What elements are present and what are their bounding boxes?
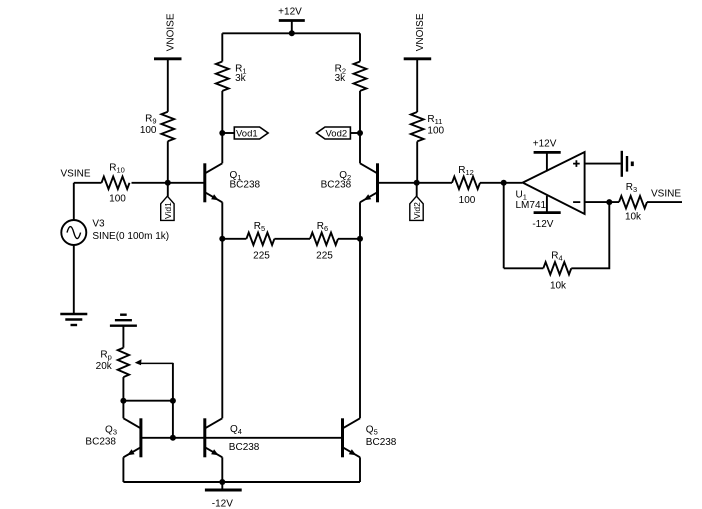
svg-text:R6: R6 [317, 221, 328, 233]
resistor R3 [619, 196, 647, 208]
node Vod2 flag [317, 127, 361, 140]
svg-text:SINE(0 100m 1k): SINE(0 100m 1k) [92, 231, 169, 242]
svg-text:Vod2: Vod2 [326, 129, 348, 140]
resistor R4 [543, 262, 571, 274]
svg-text:100: 100 [459, 195, 476, 206]
wire: V3 to ground [73, 245, 75, 314]
svg-text:VNOISE: VNOISE [165, 13, 176, 51]
wire: feedback down from output [503, 183, 505, 268]
svg-text:10k: 10k [625, 212, 642, 223]
resistor R10 [102, 177, 130, 189]
wire: R9 to Q1 base node [167, 141, 169, 183]
wire: R6 to Q2 emitter [338, 238, 360, 240]
svg-text:R3: R3 [626, 182, 637, 194]
svg-text:20k: 20k [96, 361, 113, 372]
junction wiper / cross wire [170, 398, 176, 404]
junction - input / R4 feedback [606, 199, 612, 205]
wire: rail to R1 [221, 33, 223, 61]
wire: Q4 emitter down [221, 457, 223, 482]
transistor Q4 [205, 418, 223, 457]
junction Q1 emitter / R5 [219, 236, 225, 242]
svg-text:-12V: -12V [532, 219, 553, 230]
junction -12V [219, 479, 225, 485]
svg-text:BC238: BC238 [321, 179, 352, 190]
svg-text:R12: R12 [458, 165, 474, 177]
svg-text:R11: R11 [427, 114, 442, 126]
voltage source VNOISE (left terminal bar) [154, 57, 182, 60]
power +12V (top) [279, 21, 305, 34]
svg-text:Vid1: Vid1 [163, 202, 173, 219]
junction wiper / base rail [170, 435, 176, 441]
svg-text:Q3: Q3 [105, 424, 117, 436]
resistor R1 [216, 62, 229, 91]
wire: R4 up to - input [571, 202, 609, 268]
wire: R12 to op-amp output [480, 182, 522, 184]
svg-text:+12V: +12V [533, 138, 557, 149]
junction op-amp output / feedback [501, 180, 507, 186]
resistor R9 [161, 112, 174, 141]
svg-text:BC238: BC238 [366, 437, 397, 448]
svg-text:LM741: LM741 [516, 200, 547, 211]
transistor Q1 [205, 163, 223, 202]
svg-text:3k: 3k [335, 73, 347, 84]
wire: VSINE down to V3 [73, 183, 75, 220]
transistor Q3 [123, 418, 140, 457]
junction Vod2 [357, 130, 363, 136]
resistor R5 [246, 233, 274, 245]
svg-text:R5: R5 [254, 221, 265, 233]
transistor Q5 [343, 418, 361, 457]
resistor R2 [354, 62, 367, 91]
svg-text:BC238: BC238 [85, 437, 116, 448]
svg-text:Vid2: Vid2 [412, 202, 422, 219]
node Vod1 flag [222, 127, 268, 140]
wire: R3 to VSINE net [647, 201, 682, 203]
wire: bottom emitter rail [123, 481, 360, 483]
resistor R11 [411, 112, 424, 141]
svg-text:VSINE: VSINE [61, 168, 91, 179]
wire: wiper down to base rail [172, 363, 174, 438]
wire: R11 to Q2 base node [416, 141, 418, 182]
svg-text:Q4: Q4 [230, 424, 242, 436]
wire: ground to Rp [122, 326, 124, 348]
wire: R5 to R6 [274, 238, 310, 240]
junction top rail [289, 30, 295, 36]
source V3 sine [61, 220, 86, 245]
svg-text:R10: R10 [109, 163, 125, 175]
wire: +12V top rail [222, 32, 360, 34]
svg-text:-12V: -12V [212, 498, 233, 509]
resistor R12 [452, 177, 480, 189]
ground (above Rp, flipped) [110, 315, 137, 326]
svg-text:R9: R9 [145, 114, 156, 126]
svg-text:100: 100 [140, 125, 157, 136]
svg-text:V3: V3 [92, 219, 105, 230]
wire: op-amp + input to ground [585, 163, 621, 165]
svg-text:BC238: BC238 [230, 179, 261, 190]
svg-text:VSINE: VSINE [651, 189, 681, 200]
svg-text:3k: 3k [235, 73, 247, 84]
svg-text:225: 225 [253, 250, 270, 261]
wire: R1 to Q1 collector [221, 91, 223, 163]
junction Q2 base / Vid2 [414, 180, 420, 186]
node Vid1 flag [161, 183, 174, 221]
op-amp U1 LM741 [523, 152, 585, 214]
power -12V (op-amp) [534, 196, 561, 213]
wire: rail to R2 [359, 33, 361, 61]
wire: VSINE corner to R10 [74, 182, 102, 184]
wire: common base rail Q3-Q4-Q5 [141, 437, 343, 439]
svg-text:225: 225 [316, 250, 333, 261]
svg-text:Rp: Rp [100, 349, 111, 361]
svg-text:Q5: Q5 [366, 424, 378, 436]
transistor Q2 [360, 163, 378, 202]
power -12V (bottom) [205, 482, 242, 490]
junction Rp bottom [120, 398, 126, 404]
wire: feedback bottom to R4 [504, 267, 544, 269]
svg-text:100: 100 [427, 125, 444, 136]
svg-text:+12V: +12V [278, 7, 302, 18]
wire: Q5 emitter down [359, 457, 361, 482]
resistor R6 [310, 233, 338, 245]
potentiometer Rp [118, 348, 173, 377]
svg-text:BC238: BC238 [229, 442, 260, 453]
svg-text:VNOISE: VNOISE [415, 13, 426, 51]
wire: Q1 emitter to Q4 collector [221, 202, 223, 418]
svg-text:Vod1: Vod1 [236, 129, 258, 140]
svg-text:R4: R4 [551, 250, 562, 262]
wire: Q2 base to R12 [378, 182, 453, 184]
wire: Rp bottom to Q3 collector [122, 377, 124, 418]
wire: emitter to R5 [222, 238, 246, 240]
junction Vod1 [219, 130, 225, 136]
wire: R10 to Q1 base [132, 182, 205, 184]
wire: VNOISE bar to R9 [167, 59, 169, 112]
ground (op-amp + input, rotated) [622, 151, 633, 177]
junction Q2 emitter / R6 [357, 236, 363, 242]
node Vid2 flag [410, 183, 423, 221]
ground (under V3) [60, 314, 87, 325]
wire: Q2 emitter to Q5 collector [359, 202, 361, 418]
wire: Q3 emitter down [122, 457, 124, 482]
wire: Rp bottom to wiper line [123, 400, 172, 402]
junction Q1 base / Vid1 [165, 180, 171, 186]
svg-text:100: 100 [109, 194, 126, 205]
wire: R2 to Q2 collector [359, 91, 361, 163]
voltage source VNOISE (right terminal bar) [404, 57, 432, 60]
wire: op-amp - input to R3 [585, 201, 619, 203]
svg-text:10k: 10k [550, 280, 567, 291]
power +12V (op-amp) [534, 152, 561, 171]
wire: VNOISE bar to R11 [416, 59, 418, 112]
